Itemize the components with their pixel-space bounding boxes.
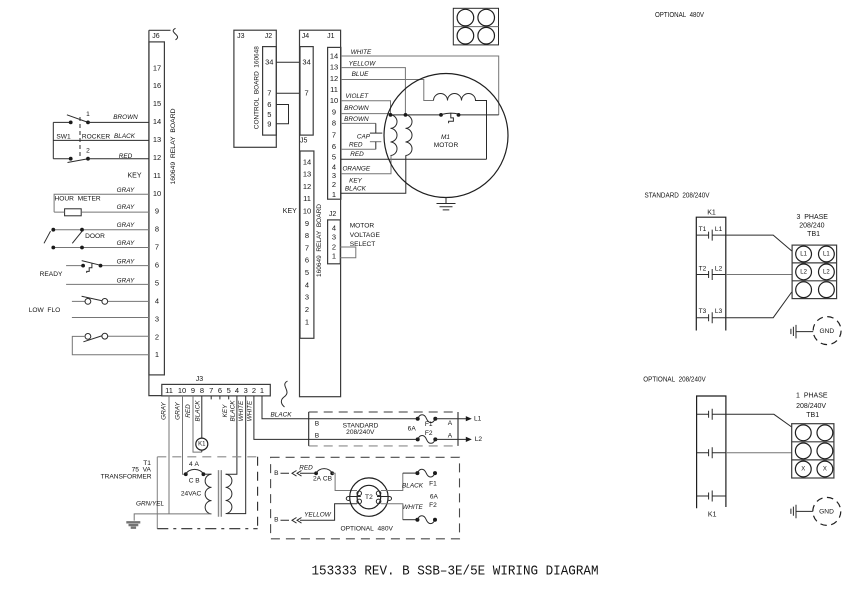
svg-text:BROWN: BROWN — [344, 116, 369, 123]
svg-text:RED: RED — [350, 151, 364, 158]
svg-text:RED: RED — [119, 153, 133, 160]
node fuse F1 left — [416, 417, 420, 421]
svg-text:11: 11 — [330, 85, 338, 94]
contact K1-3 (standard) — [696, 312, 726, 323]
svg-text:2: 2 — [252, 386, 256, 395]
svg-text:J4: J4 — [302, 33, 310, 40]
svg-text:BLACK: BLACK — [229, 400, 236, 422]
svg-text:13: 13 — [153, 135, 161, 144]
svg-text:34: 34 — [265, 58, 273, 67]
centrifugal switch blade and hook — [442, 113, 459, 123]
svg-text:CONTROL BOARD 160648: CONTROL BOARD 160648 — [254, 46, 261, 129]
svg-text:GRAY: GRAY — [117, 204, 135, 211]
node door switch B bottom — [80, 246, 84, 250]
svg-text:T2: T2 — [365, 494, 373, 501]
contact K1-1 (optional) — [697, 409, 726, 420]
node fuse F1 right (480V) — [433, 471, 437, 475]
svg-text:BLUE: BLUE — [352, 71, 369, 78]
wire F2 to L2 with arrow — [435, 438, 469, 440]
motor M1 body circle — [384, 74, 508, 198]
svg-text:1: 1 — [305, 317, 309, 326]
connector J6 pin box — [149, 42, 164, 375]
node 4A breaker left — [184, 472, 188, 476]
svg-text:3: 3 — [332, 171, 336, 180]
svg-text:L2: L2 — [800, 269, 807, 275]
node centrifugal switch left — [439, 113, 443, 117]
svg-text:T3: T3 — [699, 308, 707, 315]
wire jumper J2 pin6 to pin9 — [276, 105, 288, 124]
svg-text:KEY: KEY — [283, 208, 297, 215]
svg-text:X: X — [823, 466, 827, 472]
TB1 circle L2 b — [819, 264, 835, 280]
svg-text:5: 5 — [227, 386, 231, 395]
svg-text:KEY: KEY — [222, 404, 229, 418]
svg-text:17: 17 — [153, 63, 161, 72]
transformer T2 outer circle — [350, 478, 388, 516]
svg-text:10: 10 — [303, 207, 311, 216]
wire loop from switch B to J6 pin 1 — [72, 336, 149, 354]
svg-text:A: A — [448, 433, 453, 440]
svg-text:15: 15 — [153, 99, 161, 108]
svg-text:BLACK: BLACK — [114, 133, 136, 140]
wire F1 to L1 with arrow — [435, 418, 469, 420]
svg-text:1: 1 — [86, 111, 90, 118]
wire GRN/YEL ground bus — [134, 514, 211, 521]
svg-text:3 PHASE: 3 PHASE — [796, 214, 828, 221]
GND dashed circle (optional) — [813, 497, 841, 525]
svg-text:STANDARD 208/240V: STANDARD 208/240V — [645, 192, 710, 199]
wire-break squiggle right of J3 — [281, 381, 287, 407]
switch READY contact blade and hook — [82, 261, 101, 273]
node door switch B top — [80, 228, 84, 232]
T2 terminal bottom-left — [357, 499, 362, 504]
TB1-1ph circle X b — [817, 461, 833, 477]
svg-text:J2: J2 — [329, 211, 337, 218]
wire BLACK to J6 pin 13 — [53, 139, 149, 141]
contactor K1 rails (optional) — [697, 396, 726, 508]
connector J4 pin box — [300, 47, 313, 136]
wire GRAY hour meter to J6 pin 9 — [54, 211, 149, 213]
switch low-flo B blade — [83, 336, 102, 342]
wire WHITE J1-14 to motor switch — [341, 56, 499, 115]
node SW1 contact 1 left — [69, 121, 73, 125]
motor aux winding (top horizontal coil) — [434, 94, 487, 160]
relay board 160649 (middle view) outline — [300, 30, 341, 397]
node main winding top — [404, 113, 408, 117]
relay coil K1 circle — [196, 438, 208, 450]
svg-text:4 A: 4 A — [189, 461, 199, 468]
svg-text:5: 5 — [155, 279, 159, 288]
wire RED J1-6 to capacitor bottom — [341, 148, 376, 150]
wire GRAY hour meter to J6 pin 10 — [54, 194, 149, 212]
wire centrifugal switch line — [391, 114, 499, 116]
terminal block TB1 (3 phase) box — [792, 245, 837, 299]
wire BROWN J1-8 to capacitor top — [341, 122, 376, 124]
wire B yellow to T2 input — [300, 504, 357, 521]
node 2A CB right — [330, 471, 334, 475]
optional 480V motor plug block — [453, 8, 498, 45]
contact K1-2 (standard) — [696, 269, 726, 280]
wire T1 secondary top lead — [225, 473, 228, 475]
svg-text:7: 7 — [209, 386, 213, 395]
svg-text:6: 6 — [155, 261, 159, 270]
wire BLACK J3-1 right to standard box B — [262, 396, 418, 419]
svg-text:READY: READY — [40, 271, 63, 278]
svg-text:1: 1 — [332, 252, 336, 261]
svg-text:GRN/YEL: GRN/YEL — [136, 501, 165, 508]
svg-text:ORANGE: ORANGE — [342, 166, 370, 173]
svg-text:6: 6 — [332, 142, 336, 151]
wire T2 to F2 fuse — [381, 504, 403, 520]
svg-text:GRAY: GRAY — [117, 240, 135, 247]
svg-text:L3: L3 — [715, 308, 723, 315]
svg-text:13: 13 — [330, 63, 338, 72]
svg-text:5: 5 — [267, 110, 271, 119]
transformer T2 inner circle — [357, 485, 381, 509]
svg-text:10: 10 — [330, 96, 338, 105]
svg-text:1: 1 — [260, 386, 264, 395]
svg-text:B: B — [274, 470, 279, 477]
low flo switch B left terminal — [85, 334, 91, 340]
capacitor CAP top lead — [375, 123, 377, 133]
contact K1-1 (standard) — [696, 230, 726, 241]
node SW1 contact 2 left — [69, 157, 73, 161]
plug arrows (red side) — [281, 471, 302, 477]
svg-text:BROWN: BROWN — [113, 114, 138, 121]
wire to TB1 row1 (optional) — [726, 414, 792, 427]
wire GRAY J3-10 down to 4A breaker — [183, 396, 186, 474]
TB1-1ph circle X a — [795, 461, 811, 477]
svg-text:7: 7 — [332, 130, 336, 139]
node SW1 contact 1 right — [86, 121, 90, 125]
svg-text:4: 4 — [332, 223, 336, 232]
wire 2A CB to T2 input — [332, 473, 357, 490]
connector J3 pin box — [162, 384, 270, 396]
wire ground to GND circle (standard) — [796, 331, 813, 333]
svg-text:8: 8 — [305, 231, 309, 240]
svg-text:C B: C B — [189, 478, 201, 485]
fuse F1 element — [418, 415, 436, 423]
svg-text:14: 14 — [330, 51, 338, 60]
svg-text:SELECT: SELECT — [350, 241, 376, 248]
svg-text:11: 11 — [153, 171, 161, 180]
svg-text:YELLOW: YELLOW — [304, 511, 332, 518]
node fuse F1 right — [433, 417, 437, 421]
svg-text:RED: RED — [185, 404, 192, 418]
svg-text:MOTOR: MOTOR — [434, 142, 459, 149]
wire J2-7 to J4-7 — [276, 92, 300, 94]
plug block circle 3 — [457, 27, 474, 44]
svg-text:9: 9 — [332, 108, 336, 117]
svg-text:SW1: SW1 — [56, 133, 71, 140]
svg-text:L2: L2 — [475, 436, 483, 443]
transformer T1 primary coil — [205, 474, 211, 514]
wire SW1 pole2 to contact — [53, 158, 70, 160]
switch SW1 common rail wire — [52, 122, 54, 158]
svg-text:GRAY: GRAY — [117, 187, 135, 194]
wire BROWN to J6 pin 14 — [88, 121, 149, 123]
svg-text:TB1: TB1 — [806, 412, 819, 419]
svg-text:BLACK: BLACK — [402, 482, 424, 489]
svg-text:9: 9 — [191, 386, 195, 395]
svg-text:75 VA: 75 VA — [132, 466, 152, 473]
svg-text:OPTIONAL 480V: OPTIONAL 480V — [655, 12, 704, 19]
contactor K1 rails (standard) — [696, 217, 726, 330]
node fuse F2 right (480V) — [433, 518, 437, 522]
svg-text:GRAY: GRAY — [174, 401, 181, 419]
svg-text:1: 1 — [155, 350, 159, 359]
svg-text:11: 11 — [303, 194, 311, 203]
svg-text:L1: L1 — [823, 251, 830, 257]
svg-text:WHITE: WHITE — [238, 400, 245, 421]
wire GRAY door switches to J6 pin 8 — [53, 229, 149, 231]
svg-text:12: 12 — [330, 74, 338, 83]
wire RED to J6 pin 12 — [88, 158, 149, 160]
svg-text:3: 3 — [155, 314, 159, 323]
fuse F2 element — [418, 436, 436, 444]
svg-text:2: 2 — [155, 332, 159, 341]
motor start winding (left coil) — [391, 115, 398, 156]
svg-text:34: 34 — [302, 58, 310, 67]
node ready switch left — [81, 264, 85, 268]
svg-text:GRAY: GRAY — [161, 401, 168, 419]
svg-text:10: 10 — [178, 386, 186, 395]
connector J2 pin box (relay board lower) — [328, 220, 341, 264]
TB1-1ph circle row2 b — [817, 443, 833, 459]
svg-text:160649 RELAY BOARD: 160649 RELAY BOARD — [316, 204, 323, 277]
plug block divider — [453, 26, 498, 28]
TB1 circle row3 a — [796, 282, 812, 298]
svg-text:2A CB: 2A CB — [313, 476, 333, 483]
switch door B blade — [72, 231, 82, 244]
motor ground stem — [445, 198, 447, 204]
svg-text:WHITE: WHITE — [351, 49, 372, 56]
wire L1 to TB1 row1 — [726, 235, 792, 251]
GND dashed circle (standard) — [813, 317, 841, 345]
svg-text:14: 14 — [303, 157, 311, 166]
wire K1 coil bottom lead — [201, 450, 203, 452]
svg-text:208/240V: 208/240V — [796, 403, 826, 410]
svg-text:7: 7 — [267, 89, 271, 98]
wire GRAY to J6 pin 5 — [66, 283, 149, 285]
svg-text:LOW FLO: LOW FLO — [29, 307, 61, 314]
svg-text:208/240: 208/240 — [799, 223, 824, 230]
wire J2-34 to J4-34 — [276, 61, 300, 63]
svg-text:BLACK: BLACK — [194, 400, 201, 422]
svg-text:RED: RED — [299, 465, 313, 472]
svg-text:12: 12 — [303, 182, 311, 191]
wire RED J1-5 to aux winding end — [341, 158, 487, 160]
svg-text:J3: J3 — [237, 33, 245, 40]
svg-text:J2: J2 — [265, 33, 273, 40]
wire B to 2A CB — [300, 472, 316, 474]
switch SW1 blade 2 — [68, 159, 89, 163]
svg-text:ROCKER: ROCKER — [82, 133, 110, 140]
svg-text:3: 3 — [244, 386, 248, 395]
svg-text:BROWN: BROWN — [344, 105, 369, 112]
TB1 circle L2 a — [796, 264, 812, 280]
svg-text:1: 1 — [332, 190, 336, 199]
low flo switch B right terminal — [102, 333, 108, 339]
node door switch A bottom — [51, 246, 55, 250]
svg-text:13: 13 — [303, 170, 311, 179]
TB1-1ph circle row1 a — [795, 425, 811, 441]
wire GRAY ready switch to J6 pin 6 — [66, 265, 149, 267]
svg-text:2: 2 — [86, 148, 90, 155]
svg-text:VOLTAGE: VOLTAGE — [350, 232, 381, 239]
breaker 4A arc — [186, 469, 204, 474]
svg-text:OPTIONAL 208/240V: OPTIONAL 208/240V — [643, 377, 706, 384]
standard 208/240V dashed box — [309, 411, 458, 413]
T2 terminal top-right — [376, 491, 381, 496]
node door switch A top — [51, 228, 55, 232]
svg-text:B: B — [315, 421, 320, 428]
svg-text:L2: L2 — [823, 269, 830, 275]
svg-text:6A: 6A — [408, 425, 417, 432]
svg-text:F2: F2 — [425, 430, 433, 437]
svg-text:WHITE: WHITE — [246, 400, 253, 421]
wire to J6 pin 3 — [72, 317, 149, 319]
switch SW1 mechanical link (dashed) — [79, 117, 81, 156]
svg-text:8: 8 — [155, 225, 159, 234]
svg-text:160649 RELAY BOARD: 160649 RELAY BOARD — [170, 108, 177, 184]
wire-break squiggle at top of left board — [173, 28, 177, 40]
wire WHITE J3-3 down to T1 secondary bottom — [227, 396, 246, 514]
svg-text:11: 11 — [165, 386, 173, 395]
node fuse F1 left (480V) — [415, 471, 419, 475]
svg-text:1 PHASE: 1 PHASE — [796, 393, 828, 400]
node start winding top — [389, 113, 393, 117]
svg-text:9: 9 — [155, 207, 159, 216]
svg-text:9: 9 — [267, 119, 271, 128]
wire WHITE J3-2 right to standard box B — [254, 396, 418, 440]
svg-text:OPTIONAL 480V: OPTIONAL 480V — [340, 526, 393, 533]
wire YELLOW J1-13 to main winding top — [341, 68, 406, 115]
svg-text:J5: J5 — [300, 138, 308, 145]
wire BLACK J3-4 down to T1 secondary top — [227, 396, 237, 474]
wire jumper J2 lower pin2 to pin1 (motor voltage select) — [340, 247, 356, 258]
control board 160648 outline — [234, 30, 276, 147]
svg-text:2: 2 — [332, 243, 336, 252]
transformer T1 enclosure dashed box — [157, 456, 257, 458]
svg-text:J3: J3 — [196, 376, 204, 383]
svg-text:14: 14 — [153, 117, 161, 126]
node fuse F2 left (480V) — [415, 518, 419, 522]
svg-text:F2: F2 — [429, 502, 437, 509]
switch SW1 blade 1 — [67, 115, 88, 123]
svg-text:8: 8 — [332, 119, 336, 128]
svg-text:BLACK: BLACK — [345, 186, 367, 193]
svg-text:CAP: CAP — [357, 133, 371, 140]
TB1 circle row3 b — [819, 282, 835, 298]
svg-text:F1: F1 — [425, 421, 433, 428]
svg-text:A: A — [448, 420, 453, 427]
svg-text:3: 3 — [332, 233, 336, 242]
svg-text:12: 12 — [153, 153, 161, 162]
svg-text:16: 16 — [153, 81, 161, 90]
TB1 circle L1 a — [796, 246, 812, 262]
svg-text:DOOR: DOOR — [85, 233, 105, 240]
svg-text:F1: F1 — [429, 481, 437, 488]
breaker 2A CB arc — [316, 469, 332, 474]
svg-text:6A: 6A — [430, 493, 439, 500]
ground symbol (standard) — [791, 325, 796, 339]
transformer T1 core — [219, 470, 222, 517]
svg-text:5: 5 — [305, 268, 309, 277]
svg-text:7: 7 — [305, 89, 309, 98]
svg-text:GND: GND — [819, 328, 834, 335]
fuse F1 element (480V) — [417, 469, 435, 477]
wire BROWN J1-9 to start winding node — [341, 113, 391, 115]
svg-text:6: 6 — [267, 100, 271, 109]
T2 terminal bottom-right — [376, 499, 381, 504]
svg-text:7: 7 — [305, 244, 309, 253]
transformer T1 secondary coil — [226, 474, 232, 513]
plug arrows (yellow side) — [281, 518, 302, 524]
svg-text:3: 3 — [305, 293, 309, 302]
switch door A blade — [44, 231, 51, 243]
optional 480V dashed box — [271, 457, 460, 539]
svg-text:GRAY: GRAY — [117, 259, 135, 266]
svg-text:L1: L1 — [800, 251, 807, 257]
svg-text:24VAC: 24VAC — [181, 491, 202, 498]
wire RED J3-9 down to K1 coil — [193, 396, 202, 452]
low flo switch A right terminal — [102, 299, 108, 305]
svg-text:RED: RED — [349, 142, 363, 149]
svg-text:HOUR METER: HOUR METER — [55, 195, 101, 202]
svg-text:2: 2 — [305, 305, 309, 314]
contact K1-3 (optional) — [697, 491, 726, 502]
wire ground to GND circle (optional) — [796, 510, 813, 512]
wire T2 to F1 fuse — [381, 473, 403, 490]
svg-text:10: 10 — [153, 189, 161, 198]
svg-text:TB1: TB1 — [807, 231, 820, 238]
svg-text:7: 7 — [155, 243, 159, 252]
svg-text:2: 2 — [332, 180, 336, 189]
node SW1 contact 2 right — [86, 157, 90, 161]
node 4A breaker right — [202, 472, 206, 476]
svg-text:L2: L2 — [715, 265, 723, 272]
svg-text:B: B — [315, 433, 320, 440]
svg-text:VIOLET: VIOLET — [345, 93, 369, 100]
plug block circle 2 — [478, 9, 495, 26]
wire low-flo switch to J6 pin 4 — [72, 300, 149, 302]
connector J5 pin box — [300, 151, 314, 338]
node ready switch right — [99, 264, 103, 268]
TB1-1ph circle row1 b — [817, 425, 833, 441]
motor ground bars — [437, 204, 456, 210]
svg-text:X: X — [801, 466, 805, 472]
svg-text:TRANSFORMER: TRANSFORMER — [101, 473, 152, 480]
svg-text:MOTOR: MOTOR — [350, 222, 375, 229]
connector J1 pin box — [328, 47, 341, 199]
T2 center tap line with end hooks — [346, 497, 391, 501]
svg-text:K1: K1 — [708, 511, 717, 518]
svg-text:KEY: KEY — [127, 172, 141, 179]
svg-text:J6: J6 — [152, 33, 160, 40]
wire BLUE J1-12 to aux winding — [341, 80, 434, 101]
relay board 160649 (left view) left edge and bottom edge — [149, 30, 162, 395]
wire BLACK J3-8 down to K1 coil — [201, 396, 203, 438]
svg-text:208/240V: 208/240V — [346, 429, 375, 436]
wire 4A breaker to T1 primary — [203, 473, 211, 475]
svg-text:5: 5 — [332, 153, 336, 162]
wire ORANGE J1-3 to start winding bottom — [341, 156, 391, 174]
svg-text:4: 4 — [305, 280, 309, 289]
wire GRAY door switches to J6 pin 7 — [53, 247, 149, 249]
svg-text:L1: L1 — [715, 226, 723, 233]
ground symbol (optional) — [791, 505, 796, 519]
